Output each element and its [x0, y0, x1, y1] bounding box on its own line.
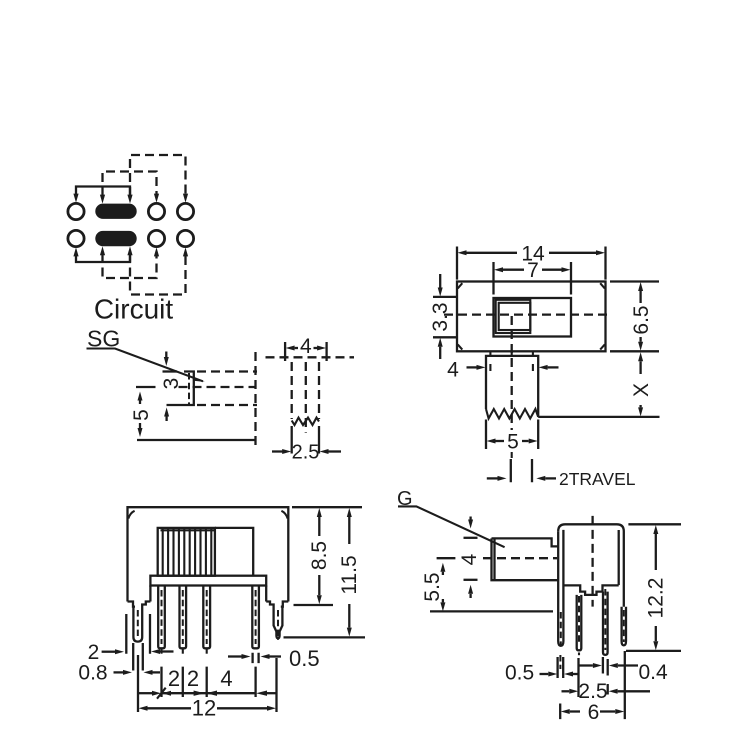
svg-text:4: 4 [447, 359, 459, 382]
svg-text:4: 4 [220, 666, 232, 691]
svg-text:6: 6 [588, 701, 600, 724]
svg-text:2.5: 2.5 [578, 680, 607, 703]
svg-text:6.5: 6.5 [630, 305, 653, 334]
svg-text:3.3: 3.3 [429, 302, 452, 331]
svg-text:Circuit: Circuit [94, 294, 174, 325]
svg-text:5: 5 [130, 409, 153, 421]
svg-text:0.5: 0.5 [505, 662, 534, 685]
svg-text:7: 7 [527, 259, 539, 282]
svg-text:4: 4 [458, 553, 481, 565]
svg-text:8.5: 8.5 [308, 541, 331, 570]
svg-text:5.5: 5.5 [421, 572, 444, 601]
svg-text:2.5: 2.5 [292, 442, 320, 464]
svg-text:2: 2 [187, 666, 199, 691]
svg-text:0.4: 0.4 [639, 661, 669, 684]
svg-text:0.5: 0.5 [289, 646, 320, 671]
svg-text:0.8: 0.8 [78, 662, 107, 685]
svg-text:X: X [630, 383, 653, 397]
svg-text:12.2: 12.2 [645, 578, 668, 619]
svg-text:12: 12 [192, 696, 216, 721]
svg-text:5: 5 [507, 431, 519, 454]
svg-text:3: 3 [160, 378, 183, 390]
svg-text:11.5: 11.5 [338, 555, 361, 594]
svg-text:2TRAVEL: 2TRAVEL [559, 469, 636, 489]
svg-text:4: 4 [300, 335, 312, 358]
svg-text:2: 2 [168, 666, 180, 691]
